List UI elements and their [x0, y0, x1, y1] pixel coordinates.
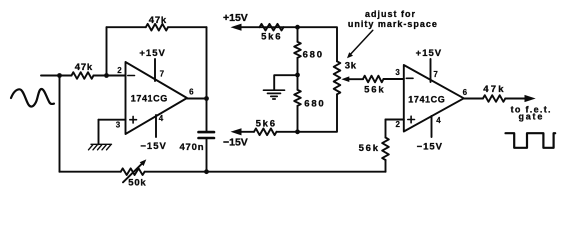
wire top node down	[297, 27, 299, 42]
svg-text:680: 680	[303, 50, 324, 61]
svg-text:470n: 470n	[179, 142, 204, 153]
U1 minus sign	[128, 75, 135, 77]
wire U1 output	[187, 98, 207, 100]
wire U1 pin4 supply	[155, 115, 157, 137]
node pin2 junction	[104, 73, 109, 78]
svg-text:4: 4	[159, 114, 164, 123]
wire ground branch	[274, 75, 297, 89]
resistor R4 680 upper	[294, 42, 301, 58]
svg-text:3: 3	[395, 68, 400, 77]
svg-text:+15V: +15V	[139, 48, 165, 59]
wire U1 pin3 ground drop	[98, 120, 100, 145]
wire 680a to mid node	[297, 58, 299, 75]
resistor R1 47k input	[72, 72, 94, 79]
svg-text:+15V: +15V	[223, 12, 248, 24]
svg-text:−15V: −15V	[417, 141, 443, 152]
wire U2 pin2 down	[385, 120, 387, 138]
wire U1 pin3 input	[99, 119, 126, 121]
+15V supply arrow mid	[239, 26, 298, 28]
wire mid node to 680b	[297, 75, 299, 90]
svg-text:−15V: −15V	[140, 141, 166, 152]
wire U2 pin2 input	[386, 119, 404, 121]
op-amp U2 1741CG	[404, 65, 464, 132]
node mid top junction	[295, 25, 300, 30]
svg-text:56k: 56k	[364, 85, 385, 96]
node bottom rail junction	[204, 169, 209, 174]
wire feedback left vertical	[106, 27, 108, 75]
wire U2 output	[464, 98, 483, 100]
U2 plus sign	[408, 116, 415, 123]
svg-text:2: 2	[117, 66, 122, 75]
wire mid top to pot column	[298, 27, 338, 61]
potentiometer VR2 3k	[334, 61, 341, 94]
wire 56k to U2 pin3	[384, 78, 404, 80]
resistor R7 56k upper	[363, 76, 384, 83]
node mid bottom junction	[295, 129, 300, 134]
svg-text:47k: 47k	[483, 84, 505, 95]
svg-text:+15V: +15V	[416, 48, 442, 59]
svg-text:1741CG: 1741CG	[408, 95, 445, 105]
svg-text:7: 7	[160, 70, 165, 79]
resistor R3 5k6 top	[260, 24, 284, 31]
node mid divider junction	[295, 73, 300, 78]
resistor R6 5k6 bottom	[254, 129, 277, 136]
svg-text:680: 680	[304, 99, 325, 110]
wire input down to bottom rail	[59, 76, 61, 172]
wire feedback top right	[168, 26, 207, 28]
U2 minus sign	[406, 77, 413, 79]
svg-text:6: 6	[463, 88, 468, 97]
ground earth mid	[264, 90, 285, 99]
wire 56k lower to rail	[385, 160, 387, 172]
resistor R5 680 lower	[294, 90, 301, 106]
node U1 output junction	[204, 96, 209, 101]
wire mid bottom to pot column	[277, 94, 338, 132]
op-amp U1 1741CG	[126, 62, 188, 134]
capacitor C1 470n	[199, 132, 215, 138]
svg-text:7: 7	[433, 70, 438, 79]
-15V supply arrow mid	[239, 131, 254, 133]
ground chassis U1	[89, 144, 112, 150]
node input junction	[57, 73, 62, 78]
svg-text:3k: 3k	[345, 60, 357, 71]
wire U1 pin7 supply	[154, 59, 156, 81]
svg-text:6: 6	[189, 88, 194, 97]
wire output node to capacitor	[206, 99, 208, 132]
svg-text:47k: 47k	[75, 62, 93, 73]
wire U2 pin7 supply	[430, 59, 432, 82]
wire feedback right vertical	[206, 27, 208, 98]
svg-text:5k6: 5k6	[261, 32, 282, 43]
resistor R9 47k output	[483, 95, 505, 102]
wire bottom rail left	[60, 171, 121, 173]
wire feedback top left	[107, 26, 146, 28]
wire 680b to bottom node	[297, 106, 299, 132]
U1 plus sign	[130, 116, 137, 123]
svg-text:adjust for: adjust for	[365, 9, 416, 19]
wire input stub	[41, 75, 72, 77]
wire resistor to pin2 node	[94, 75, 126, 77]
wire U2 pin4 supply	[431, 116, 433, 137]
wire bottom rail right	[145, 171, 386, 173]
svg-text:3: 3	[116, 121, 121, 130]
pot 50k wiper arrow	[123, 162, 144, 182]
svg-text:47k: 47k	[149, 15, 167, 26]
potentiometer VR1 50k	[121, 168, 145, 175]
svg-text:4: 4	[436, 116, 441, 125]
svg-text:56k: 56k	[359, 143, 380, 154]
pot 3k wiper arrow	[349, 78, 364, 80]
svg-text:gate: gate	[518, 112, 544, 122]
svg-text:50k: 50k	[128, 178, 146, 189]
svg-text:2: 2	[395, 120, 400, 129]
svg-text:1741CG: 1741CG	[131, 93, 168, 103]
resistor R8 56k lower	[382, 138, 389, 161]
svg-text:−15V: −15V	[223, 136, 248, 148]
annotation arrow adjust	[350, 30, 373, 55]
square wave symbol	[506, 133, 556, 148]
sine wave input symbol	[11, 89, 54, 107]
wire capacitor to bottom rail	[206, 139, 208, 172]
resistor R2 47k feedback	[146, 24, 168, 31]
svg-text:unity mark-space: unity mark-space	[348, 19, 438, 29]
wire output arrow	[505, 98, 526, 100]
svg-text:5k6: 5k6	[256, 119, 277, 130]
